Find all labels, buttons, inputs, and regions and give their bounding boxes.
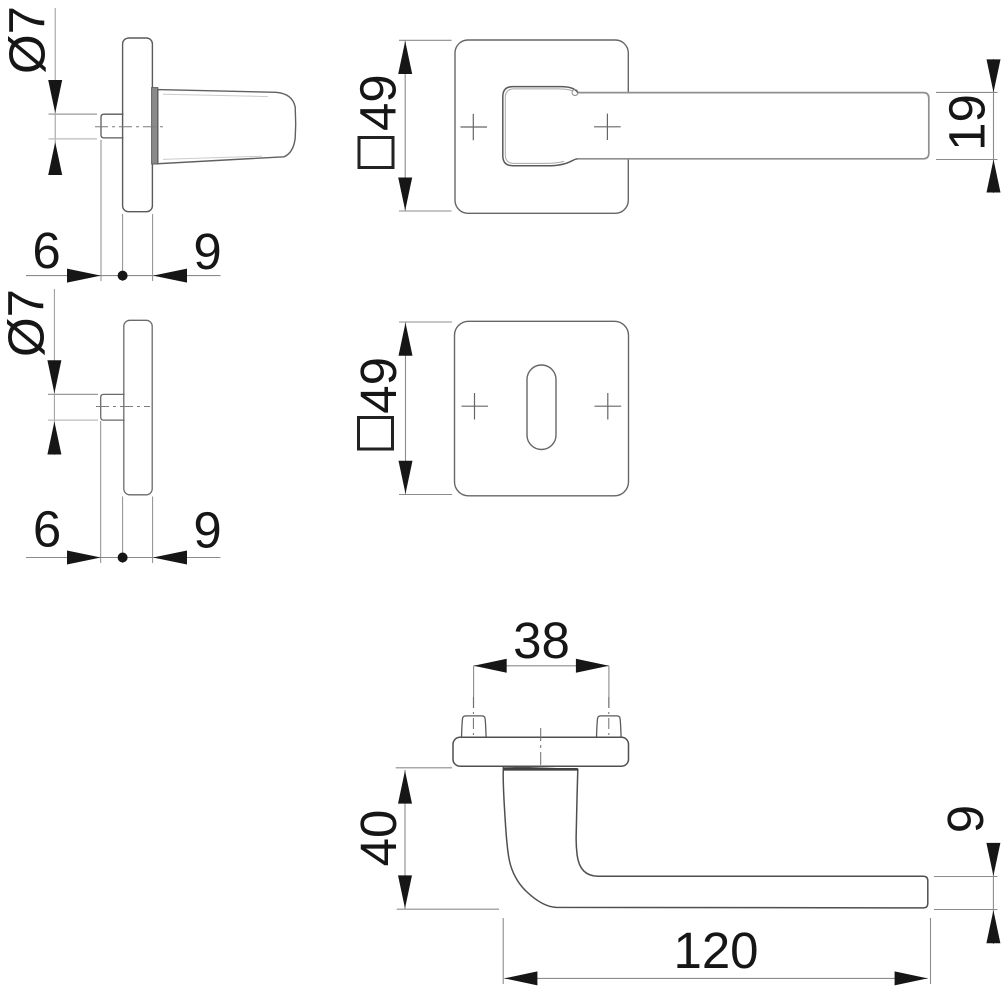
handle neck and lever (top view) xyxy=(503,767,928,908)
svg-text:9: 9 xyxy=(193,223,221,280)
svg-text:Ø7: Ø7 xyxy=(0,289,55,357)
grip shaded junction band xyxy=(152,88,158,164)
dimension 40 xyxy=(350,768,499,909)
neck-plate junction line xyxy=(503,768,577,771)
rosette plate side view xyxy=(123,38,153,212)
screw mark left (view 3) xyxy=(461,114,488,140)
square rosette front view xyxy=(455,40,628,213)
screw right (top view) xyxy=(597,716,622,737)
screw left (top view) xyxy=(462,716,487,737)
grip highlight lines xyxy=(163,94,268,96)
svg-text:6: 6 xyxy=(33,501,61,558)
svg-text:120: 120 xyxy=(673,922,758,979)
screw axis left xyxy=(472,697,474,760)
lever bar xyxy=(572,93,929,159)
svg-text:40: 40 xyxy=(350,810,407,867)
key rose stub xyxy=(101,394,125,420)
screw mark right (view 4) xyxy=(595,393,622,420)
dimension square-49 (view 4) xyxy=(350,322,452,495)
collar corner detail xyxy=(572,90,578,96)
centre line view 2 xyxy=(96,406,150,408)
dimension Ø7 (view 2) xyxy=(0,289,98,455)
centre axis (top view) xyxy=(540,728,542,786)
screw axis right xyxy=(608,697,610,760)
svg-text:19: 19 xyxy=(939,94,996,151)
dimension square-49 (view 3) xyxy=(350,40,452,211)
svg-text:9: 9 xyxy=(193,502,221,559)
svg-text:9: 9 xyxy=(937,805,994,833)
dimension 120 xyxy=(503,918,930,985)
svg-text:Ø7: Ø7 xyxy=(0,6,56,74)
dimension 19 (view 3) xyxy=(936,59,1001,193)
svg-text:49: 49 xyxy=(350,357,407,414)
dimension Ø7 (view 1) xyxy=(0,6,97,175)
screw mark right (view 3) xyxy=(594,114,621,140)
dimension 38 xyxy=(474,612,609,708)
dimension 9 (top view) xyxy=(934,805,1000,944)
spindle stub xyxy=(101,114,123,138)
key rosette plate side view xyxy=(124,320,152,495)
rose plate (top view) xyxy=(453,737,629,766)
centre line view 1 xyxy=(95,126,165,128)
svg-text:6: 6 xyxy=(32,222,60,279)
grip side view outline xyxy=(158,90,296,164)
dimension 6 / 9 (view 1) xyxy=(26,140,222,283)
dimension 6 / 9 (view 2) xyxy=(26,421,222,565)
keyhole xyxy=(527,365,556,450)
square key rosette front view xyxy=(455,321,629,496)
svg-text:38: 38 xyxy=(513,612,570,669)
screw mark left (view 4) xyxy=(462,393,489,420)
lever neck collar xyxy=(503,87,578,166)
svg-text:49: 49 xyxy=(350,74,407,131)
